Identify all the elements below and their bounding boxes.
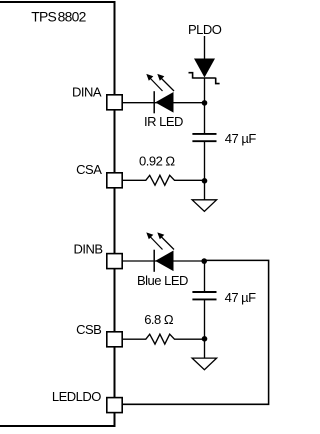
- svg-text:Blue LED: Blue LED: [137, 273, 188, 288]
- svg-text:CSB: CSB: [76, 322, 101, 337]
- svg-text:TPS8802: TPS8802: [31, 9, 86, 25]
- svg-text:DINA: DINA: [72, 85, 102, 100]
- svg-text:LEDLDO: LEDLDO: [52, 389, 101, 404]
- svg-text:0.92 Ω: 0.92 Ω: [139, 153, 175, 168]
- svg-text:DINB: DINB: [74, 241, 103, 256]
- svg-text:47 µF: 47 µF: [225, 290, 257, 305]
- svg-text:PLDO: PLDO: [188, 22, 222, 37]
- svg-text:CSA: CSA: [76, 162, 102, 177]
- svg-text:6.8 Ω: 6.8 Ω: [144, 312, 174, 327]
- svg-text:IR LED: IR LED: [144, 114, 183, 129]
- svg-text:47 µF: 47 µF: [225, 131, 257, 146]
